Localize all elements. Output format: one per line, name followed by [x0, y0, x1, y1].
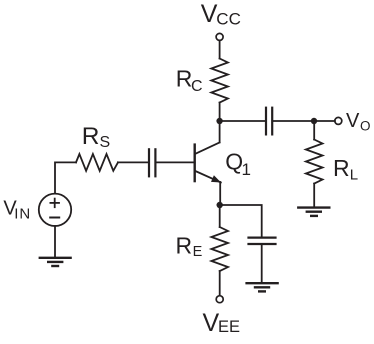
svg-text:S: S [100, 134, 111, 151]
wire bypass capacitor to ground [261, 245, 263, 282]
resistor RC [211, 59, 228, 103]
wire output capacitor to output node [273, 120, 314, 122]
bypass capacitor [249, 237, 276, 239]
wire output node to RL [313, 121, 315, 140]
svg-text:V: V [203, 309, 220, 337]
wire RS to input capacitor [118, 161, 148, 163]
wire RL to ground [313, 184, 315, 207]
source VIN [39, 194, 71, 226]
wire RC to collector node [219, 103, 221, 122]
svg-text:O: O [360, 118, 371, 133]
svg-text:CC: CC [216, 9, 241, 28]
svg-text:IN: IN [14, 205, 31, 222]
ground bypass capacitor [247, 283, 278, 291]
node emitter [217, 202, 223, 208]
node collector [216, 118, 222, 124]
svg-text:V: V [346, 110, 360, 132]
VO label [346, 110, 371, 133]
wire VIN to RS [55, 162, 76, 193]
svg-text:1: 1 [242, 160, 251, 179]
svg-text:EE: EE [218, 318, 240, 336]
ground VIN [40, 258, 71, 266]
svg-text:E: E [193, 244, 203, 260]
wire VCC terminal to RC [219, 40, 221, 58]
svg-text:V: V [201, 0, 218, 28]
RS label [82, 123, 110, 151]
transistor Q1 [195, 121, 221, 205]
svg-text:R: R [333, 155, 350, 181]
Q1 label [225, 149, 251, 180]
RL label [333, 155, 358, 183]
svg-text:L: L [350, 167, 358, 184]
base wire [157, 161, 195, 163]
svg-text:C: C [191, 78, 203, 95]
wire emitter node to bypass capacitor [220, 205, 262, 236]
resistor RL [306, 140, 323, 184]
svg-text:R: R [82, 123, 100, 150]
RE label [176, 232, 203, 260]
resistor RS [76, 154, 118, 171]
svg-text:R: R [176, 66, 193, 92]
output coupling capacitor [265, 108, 267, 135]
VCC terminal [216, 33, 223, 40]
wire RE to VEE terminal [219, 271, 221, 296]
wire VIN to ground [54, 226, 56, 257]
RC label [176, 66, 203, 95]
ground RL [298, 208, 329, 216]
resistor RE [211, 227, 228, 271]
wire collector node to output capacitor [220, 120, 265, 122]
input coupling capacitor [148, 149, 150, 176]
wire emitter node to RE [219, 205, 221, 227]
VCC label [201, 0, 241, 28]
terminal VO [335, 117, 342, 124]
svg-text:Q: Q [225, 149, 243, 175]
terminal VEE [216, 296, 223, 303]
svg-text:R: R [176, 232, 193, 258]
wire output node to VO terminal [314, 120, 335, 122]
VIN label [3, 198, 31, 223]
VEE label [203, 309, 241, 337]
node output [311, 118, 317, 124]
